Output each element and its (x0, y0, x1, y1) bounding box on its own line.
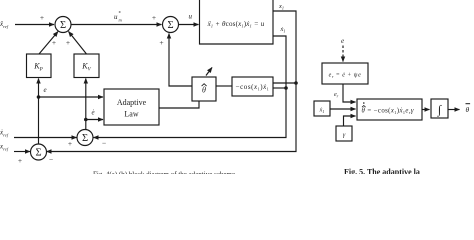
svg-text:Law: Law (124, 110, 138, 119)
plant block: x1dd + theta cos(x1) x1d = u (top edge cut off) (200, 0, 274, 44)
svg-text:ẋ1: ẋ1 (319, 108, 325, 114)
block Adaptive Law (104, 89, 159, 125)
junction dot e_dot branch (84, 118, 88, 122)
svg-text:x1: x1 (278, 3, 284, 11)
node x1 output label (278, 3, 284, 11)
block -cos(x1)x1dot (232, 77, 273, 96)
plus sign at S2 bottom input (159, 38, 163, 47)
svg-text:*: * (119, 12, 122, 17)
wire e branch to Adaptive Law (39, 96, 104, 98)
node x1dot output label (280, 26, 286, 34)
minus sign at S3 right input (102, 139, 106, 148)
svg-text:∫: ∫ (437, 103, 442, 117)
svg-text:θ: θ (202, 86, 206, 95)
wire Adaptive Law output to theta-hat block (159, 102, 199, 109)
svg-text:+: + (152, 13, 156, 22)
svg-text:m: m (119, 18, 123, 23)
dashed wire e into er block (342, 46, 344, 62)
node er label (334, 92, 339, 98)
wire theta-hat block to S2 bottom (169, 34, 192, 87)
wire integrator output to theta-hat (448, 109, 460, 111)
block theta-hat (adjustable gain) (192, 77, 216, 101)
svg-text:+: + (66, 38, 70, 47)
block gamma (336, 126, 352, 141)
block Kv (74, 54, 99, 78)
wire x1 output: right edge to vertical feedback line (47, 11, 297, 152)
svg-text:u: u (189, 13, 193, 21)
wire x_ref to S4 (14, 151, 30, 153)
svg-text:Σ: Σ (167, 20, 173, 31)
junction dot x1 tap (294, 81, 298, 85)
plus sign Kp branch (52, 38, 56, 47)
wire cos block to theta-hat block (217, 85, 233, 87)
svg-text:Adaptive: Adaptive (117, 98, 147, 107)
svg-text:e: e (341, 37, 344, 45)
plus sign at S3 left input (68, 139, 72, 148)
svg-text:Σ: Σ (82, 133, 88, 144)
svg-text:ė: ė (92, 109, 95, 117)
svg-text:er = ė + ψe: er = ė + ψe (329, 73, 362, 79)
svg-text:er: er (334, 92, 339, 98)
wire x1 tap into cos block (274, 82, 297, 84)
svg-text:Σ: Σ (35, 148, 41, 159)
svg-text:θ: θ (466, 105, 470, 114)
caption figure 4 (clipped at bottom) (93, 171, 235, 179)
svg-text:−: − (102, 139, 106, 148)
wire er into law block (343, 84, 356, 102)
svg-text:e: e (44, 86, 47, 94)
svg-text:ẋref: ẋref (0, 129, 9, 138)
block adaptation law: theta-hat-dot = -cos(x1) x1dot er gamma (357, 99, 422, 120)
svg-text:ẍ1 + θcos(x1)ẋ1 = u: ẍ1 + θcos(x1)ẋ1 = u (207, 20, 265, 29)
wire x_ddot_ref to summer S1 (15, 24, 54, 26)
summing junction S4 (position error) (31, 144, 47, 160)
node e input label (341, 37, 344, 45)
wire Kp top to S1 (39, 32, 58, 55)
svg-text:γ: γ (343, 132, 346, 139)
plus sign Kv branch (66, 38, 70, 47)
wire x1dot output: right edge to vertical feedback line (94, 36, 287, 138)
wire Kv top to S1 (69, 32, 87, 55)
wire e_dot branch to Adaptive Law (86, 119, 103, 121)
node x_ref label (0, 143, 9, 152)
wire x1dot tap into cos block (274, 87, 287, 89)
svg-text:KV: KV (81, 62, 91, 73)
svg-text:u: u (114, 13, 118, 21)
svg-text:−: − (49, 155, 53, 164)
svg-text:ẋ1: ẋ1 (280, 26, 286, 34)
wire e_dot: S3 top up to Kv (85, 79, 87, 131)
minus sign at S4 right input (49, 155, 53, 164)
svg-text:KP: KP (33, 62, 42, 73)
caption figure 5 (clipped at bottom) (344, 168, 420, 177)
wire x_dot_ref to S3 (14, 137, 77, 139)
svg-text:+: + (18, 156, 22, 165)
wire S2 to plant, node u (179, 24, 199, 26)
svg-text:Σ: Σ (60, 20, 66, 31)
junction dot e branch (37, 95, 41, 99)
wire gamma into law block (344, 116, 356, 126)
node e_dot label (92, 109, 95, 117)
block x1dot (right diagram) (314, 101, 330, 116)
wire law block to integrator (422, 109, 430, 111)
block er = edot + psi e (322, 63, 368, 84)
node x_dot_ref label (0, 129, 9, 138)
junction dot x1dot tap (284, 86, 288, 90)
svg-text:Fig. 5. The adaptive la: Fig. 5. The adaptive la (344, 168, 420, 175)
node theta-hat output label (466, 103, 471, 114)
summing junction S3 (velocity error) (77, 130, 93, 146)
summing junction S2 (163, 17, 179, 33)
svg-text:+: + (159, 38, 163, 47)
adjustment arrow on theta-hat block (206, 68, 212, 76)
plus sign at S1 left input (40, 13, 44, 22)
node x_ddot_ref input label (0, 20, 9, 29)
wire S1 to S2 (71, 24, 162, 26)
wire e: S4 top up to Kp (38, 79, 40, 145)
svg-text:−cos(x1)ẋ1: −cos(x1)ẋ1 (236, 83, 270, 91)
block Kp (27, 54, 52, 78)
wire x1dot into law block (330, 108, 356, 110)
block integrator (431, 99, 448, 118)
plus sign at S2 left input (152, 13, 156, 22)
node u*_m label (114, 12, 123, 23)
node e label (44, 86, 47, 94)
plus sign at S4 left input (18, 156, 22, 165)
svg-text:θ = −cos(x1)ẋ1erγ: θ = −cos(x1)ẋ1erγ (362, 108, 414, 115)
svg-text:ẍref: ẍref (0, 20, 9, 29)
svg-text:Fig. 4(a),(b) block diagram of: Fig. 4(a),(b) block diagram of the adapt… (93, 171, 235, 175)
summing junction S1 (55, 17, 71, 33)
svg-text:+: + (68, 139, 72, 148)
svg-text:+: + (40, 13, 44, 22)
svg-text:+: + (52, 38, 56, 47)
svg-text:xref: xref (0, 143, 9, 152)
